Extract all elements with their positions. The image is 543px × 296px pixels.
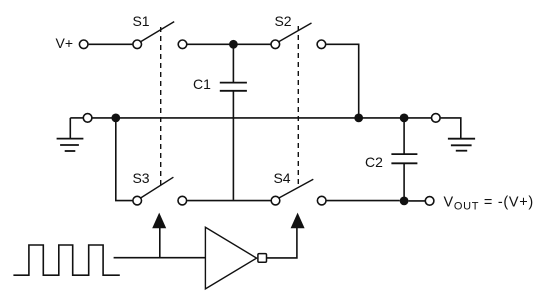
wire (C2 node to terminal) bbox=[404, 117, 431, 119]
wire (clock to inverter input) bbox=[114, 257, 205, 259]
arrowhead (S3 control) bbox=[152, 213, 166, 229]
svg-text:C1: C1 bbox=[193, 76, 211, 92]
switch S2 bbox=[271, 13, 326, 49]
svg-text:V+: V+ bbox=[55, 35, 73, 51]
control dashed line phi2 (S2/S4) bbox=[297, 26, 299, 187]
capacitor C2 bbox=[365, 118, 417, 201]
inverter U1 bbox=[205, 227, 266, 289]
ground (left) bbox=[57, 118, 84, 151]
node (VOUT junction) bbox=[400, 197, 409, 206]
ground (right) bbox=[448, 139, 475, 151]
wire (rail to C2 node) bbox=[359, 117, 404, 119]
node (S2 drop junction) bbox=[354, 114, 363, 123]
switch S1 bbox=[132, 13, 186, 49]
svg-text:C2: C2 bbox=[365, 154, 383, 170]
wire (V+ to S1) bbox=[89, 43, 133, 45]
wire (VOUT node to terminal) bbox=[409, 200, 426, 202]
terminal (ground rail right) bbox=[432, 114, 441, 123]
wire (C1 bottom plate down to S3/S4 row) bbox=[232, 91, 234, 200]
wire (S2 to ground rail) bbox=[326, 44, 358, 118]
wire (terminal to rail node) bbox=[92, 117, 112, 119]
wire (inverter output up to S4 control) bbox=[267, 228, 297, 258]
wire (rail node down to S3) bbox=[116, 118, 133, 201]
arrowhead (S4 control) bbox=[291, 213, 305, 229]
wire (S4 to VOUT node) bbox=[327, 200, 400, 202]
clock input square wave bbox=[13, 245, 119, 275]
terminal (V+ input) bbox=[79, 40, 88, 49]
capacitor C1 bbox=[193, 44, 247, 92]
node (C2 top junction) bbox=[400, 114, 409, 123]
terminal (VOUT) bbox=[425, 197, 434, 206]
wire (left ground to terminal) bbox=[70, 117, 83, 119]
wire (clock branch up to S3 control) bbox=[159, 228, 161, 258]
node (C1 top junction) bbox=[229, 40, 238, 49]
wire (ground rail) bbox=[116, 117, 359, 119]
svg-text:S2: S2 bbox=[274, 13, 291, 29]
wire (terminal to right ground) bbox=[441, 118, 461, 139]
terminal (ground rail left) bbox=[83, 114, 92, 123]
svg-text:S1: S1 bbox=[132, 13, 149, 29]
switch S4 bbox=[271, 170, 326, 205]
wire (S3 to S4 bottom node) bbox=[187, 200, 271, 202]
switch S3 bbox=[132, 170, 186, 205]
wire (S1 to S2 top node) bbox=[187, 43, 270, 45]
svg-text:S4: S4 bbox=[273, 170, 290, 186]
svg-text:S3: S3 bbox=[132, 170, 149, 186]
control dashed line phi1 (S1/S3) bbox=[160, 27, 162, 187]
node (rail left junction) bbox=[111, 114, 120, 123]
